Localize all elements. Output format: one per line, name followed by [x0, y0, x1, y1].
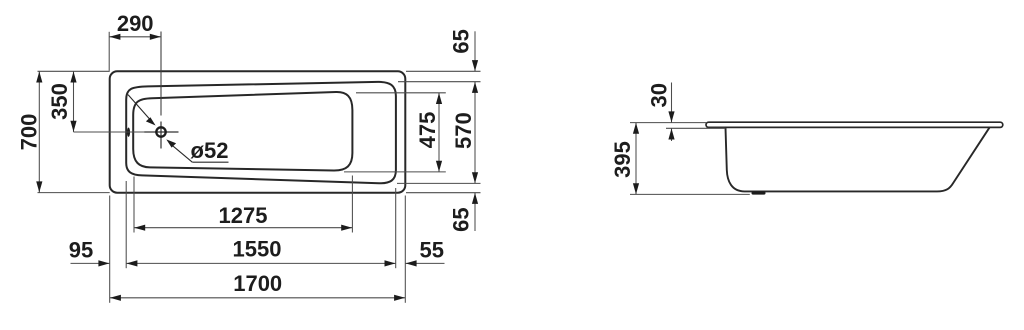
- dim 1275: arrowheads: [134, 225, 145, 231]
- dim 30: upper arrowhead: [668, 111, 674, 122]
- dim 30: extension rim bottom: [666, 127, 726, 129]
- dim 1550: extension inner rim right: [395, 188, 397, 268]
- dim 395: extension bottom: [630, 193, 750, 195]
- dim 1700: arrowheads: [110, 295, 121, 301]
- leader line to drain from upper left: [128, 95, 150, 120]
- dim 1550: extension inner rim left: [125, 181, 127, 268]
- dim 55: arrowhead: [406, 260, 417, 266]
- dim 570: arrowheads: [472, 82, 478, 93]
- drain centerline horizontal: [144, 131, 179, 133]
- dim 700: dimension line: [38, 71, 40, 192]
- drain centerline vertical lower: [160, 122, 162, 149]
- dim 30: lower tail: [671, 128, 673, 141]
- svg-text:95: 95: [69, 238, 93, 263]
- dim 395: arrowheads: [633, 123, 639, 134]
- svg-text:1275: 1275: [219, 203, 268, 228]
- right chain: extension inner rim top edge: [398, 81, 481, 83]
- leader arrowhead at drain upper left: [146, 117, 156, 125]
- svg-text:55: 55: [420, 238, 444, 263]
- dim 1700: dimension line: [110, 297, 406, 299]
- svg-text:1550: 1550: [233, 237, 282, 262]
- dim 55: dimension line: [405, 262, 444, 264]
- dim 700: arrowheads: [36, 72, 42, 83]
- dim 475: extension floor bottom edge: [344, 171, 446, 173]
- dim 95: arrowhead: [98, 260, 109, 266]
- dim 700: extension line bottom: [38, 192, 110, 194]
- dim 65 top: tail: [474, 31, 476, 71]
- drain centerline vertical upper (extension of 290): [160, 32, 162, 116]
- drain circle: [156, 127, 165, 136]
- dim 30: extension rim top: [630, 122, 706, 124]
- svg-text:65: 65: [448, 207, 473, 231]
- dim 1275: dimension line: [134, 227, 352, 229]
- svg-text:700: 700: [16, 114, 41, 151]
- dim 1700: extension outer left: [109, 196, 111, 303]
- side view: drain stub under tub: [752, 191, 766, 194]
- dim 395: dimension line: [635, 123, 637, 195]
- dim 1700: extension outer right: [404, 196, 406, 303]
- leader arrowhead at drain lower right: [166, 139, 176, 147]
- dim 1275: extension floor right: [351, 176, 353, 233]
- svg-text:65: 65: [449, 29, 474, 53]
- svg-text:475: 475: [415, 112, 440, 149]
- svg-text:ø52: ø52: [191, 138, 229, 163]
- svg-text:30: 30: [647, 83, 672, 107]
- dim 95: dimension line: [71, 262, 110, 264]
- dim 475: dimension line: [438, 93, 440, 172]
- dim 30: upper tail: [671, 83, 673, 123]
- right chain: extension inner rim bottom edge: [397, 182, 481, 184]
- svg-text:1700: 1700: [233, 271, 282, 296]
- plan view: bathtub outer rim edge: [110, 71, 406, 192]
- right chain: extension outer bottom edge: [406, 192, 481, 194]
- dim 475: extension floor top edge: [356, 92, 446, 94]
- dim 700: extension line top: [38, 70, 110, 72]
- side view: rim bar: [706, 122, 1003, 127]
- leader line to drain from lower right: [172, 145, 192, 162]
- dim 290: dimension line: [109, 36, 161, 38]
- svg-text:395: 395: [610, 141, 635, 178]
- dim 65 bottom: arrowhead: [472, 193, 478, 204]
- dim 1275: extension floor left: [133, 177, 135, 233]
- dim 350: extension line at drain level: [74, 131, 146, 133]
- dim 290: extension line left: [108, 32, 110, 71]
- dim 65 bottom: tail: [474, 193, 476, 231]
- right chain: extension outer top edge: [406, 70, 481, 72]
- svg-text:570: 570: [451, 112, 476, 149]
- dim 30: lower arrowhead: [668, 129, 674, 140]
- dim 290: arrowheads: [109, 34, 120, 40]
- overflow tick on inner rim left edge: [127, 128, 130, 137]
- dim 570: dimension line: [474, 82, 476, 184]
- svg-text:350: 350: [47, 83, 72, 120]
- dim 1550: dimension line: [126, 262, 396, 264]
- dim 475: arrowheads: [436, 93, 442, 104]
- plan view: bathtub inner rim contour: [126, 82, 396, 183]
- leader underline for label: [192, 161, 228, 163]
- side view: tub body: [726, 128, 990, 192]
- dim 350: dimension line: [73, 71, 75, 132]
- dim 350: arrowheads: [70, 72, 76, 83]
- svg-text:290: 290: [117, 11, 154, 36]
- dim 65 top: arrowhead: [472, 60, 478, 71]
- dim 1550: arrowheads: [126, 260, 137, 266]
- plan view: bathtub floor contour: [133, 92, 352, 171]
